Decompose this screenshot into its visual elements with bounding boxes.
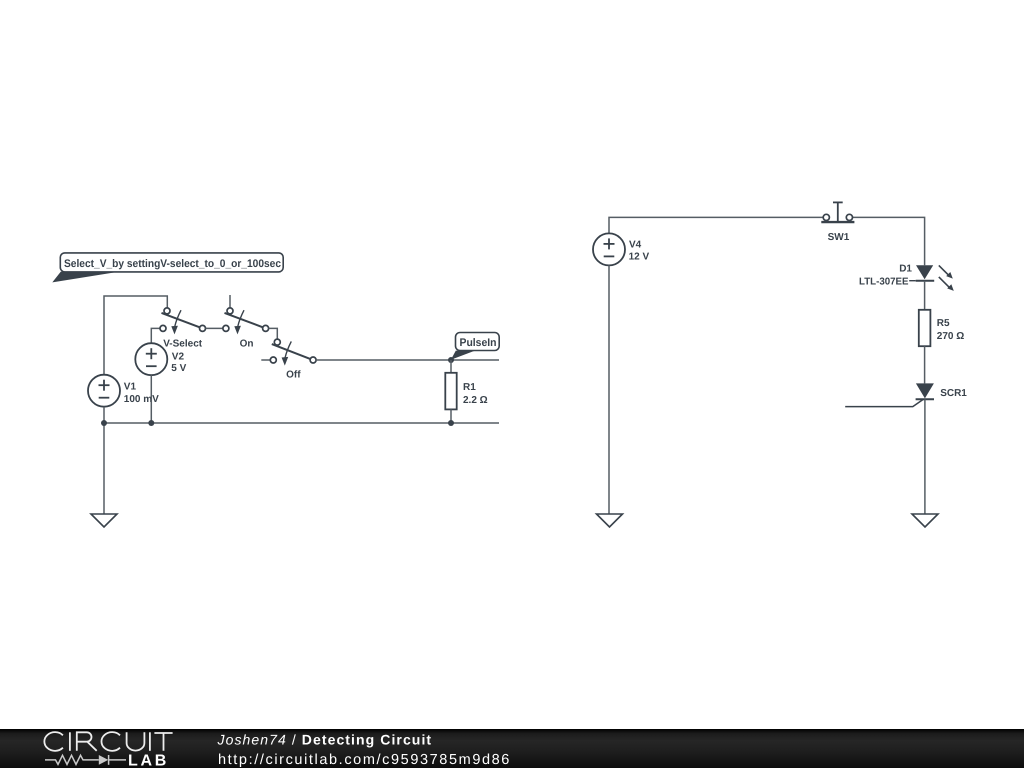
junction R1 bottom: [448, 420, 454, 426]
LED D1: [916, 265, 954, 291]
wire V-Select common to On throw: [206, 327, 223, 329]
voltage source V4: [593, 233, 625, 265]
label R5 value: [937, 318, 964, 342]
svg-text:R5: R5: [937, 318, 950, 329]
wire Off left stub: [261, 359, 270, 361]
svg-text:SCR1: SCR1: [940, 388, 967, 399]
wire V4 top rail to SW1: [609, 217, 823, 233]
switch On: [223, 308, 269, 335]
switch Off: [270, 339, 316, 366]
wire V2 top stub: [151, 328, 160, 343]
switch SW1 pushbutton: [821, 202, 854, 222]
CircuitLab logo wordmark CIRCUIT: [44, 732, 172, 751]
svg-text:Select_V_by settingV-select_to: Select_V_by settingV-select_to_0_or_100s…: [64, 258, 281, 270]
wire On common to Off switch: [269, 328, 278, 339]
svg-text:SW1: SW1: [828, 232, 850, 243]
ground (V4): [597, 514, 623, 527]
resistor R1: [445, 373, 456, 410]
svg-text:Off: Off: [286, 370, 301, 381]
svg-text:LTL-307EE: LTL-307EE: [859, 277, 909, 288]
wire stub above On switch: [229, 295, 231, 308]
junction V1 bottom: [101, 420, 107, 426]
wire R1 top stub: [450, 360, 452, 373]
svg-text:Joshen74 / Detecting Circuit: Joshen74 / Detecting Circuit: [217, 732, 433, 748]
annotation note Select_V: [52, 253, 283, 283]
svg-text:12 V: 12 V: [629, 252, 650, 263]
svg-text:LAB: LAB: [128, 752, 169, 768]
label V1 value: [124, 381, 159, 405]
SCR SCR1: [845, 383, 934, 406]
svg-text:V1: V1: [124, 381, 137, 392]
svg-text:100 mV: 100 mV: [124, 394, 159, 405]
voltage source V1: [88, 375, 120, 407]
ground (left circuit): [91, 514, 117, 527]
logo resistor-diode squiggle: [45, 755, 126, 765]
wire D1 to R5: [924, 281, 926, 310]
junction node at PulseIn: [448, 357, 454, 363]
label D1 value: [859, 264, 912, 288]
svg-text:V4: V4: [629, 240, 642, 251]
wire SCR1 to ground: [924, 399, 926, 514]
svg-text:R1: R1: [463, 382, 476, 393]
label V4 value: [629, 240, 650, 263]
label R1 value: [463, 382, 488, 406]
switch V-Select: [160, 308, 206, 335]
junction V2 bottom: [148, 420, 154, 426]
svg-text:V-Select: V-Select: [163, 338, 203, 349]
label D1 tick: [909, 280, 916, 282]
ground (SCR1): [912, 514, 938, 527]
node PulseIn flag: [451, 333, 499, 360]
footer bar: [0, 729, 1024, 768]
wire V2 bottom to ground rail: [150, 375, 152, 423]
wire V4 bottom to ground: [608, 265, 610, 514]
wire bottom rail: [104, 422, 499, 424]
svg-text:On: On: [240, 338, 254, 349]
svg-text:http://circuitlab.com/c9593785: http://circuitlab.com/c9593785m9d86: [218, 752, 511, 768]
wire V1 top to V-Select switch: [104, 296, 167, 375]
svg-text:2.2 Ω: 2.2 Ω: [463, 395, 488, 406]
wire R1 bottom stub: [450, 409, 452, 423]
svg-text:5 V: 5 V: [171, 363, 186, 374]
wire V1 bottom to ground rail: [103, 407, 105, 514]
svg-text:PulseIn: PulseIn: [460, 337, 497, 349]
wire R5 to SCR1: [924, 346, 926, 383]
svg-text:270 Ω: 270 Ω: [937, 331, 964, 342]
svg-text:D1: D1: [899, 264, 912, 275]
voltage source V2: [135, 343, 167, 375]
svg-text:V2: V2: [172, 351, 185, 362]
logo diode triangle: [99, 755, 108, 765]
wire Off common to PulseIn node and beyond: [316, 359, 499, 361]
wire SW1 to right branch: [853, 217, 925, 265]
resistor R5: [919, 310, 931, 346]
label V2 value: [171, 351, 186, 374]
